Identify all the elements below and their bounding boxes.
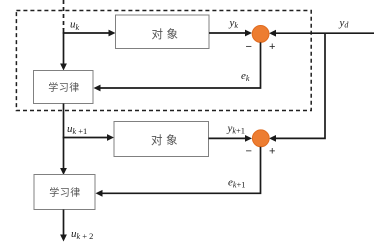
plant box 对象 (iteration k+1) [114, 122, 209, 157]
learning law box 学习律 (iteration k) [34, 71, 94, 104]
wire: e_k+1 from summing node 2 to learning law 2 [98, 147, 261, 194]
svg-text:对象: 对象 [151, 133, 181, 147]
svg-text:对象: 对象 [152, 27, 182, 41]
learning law box 学习律 (iteration k+1) [34, 175, 95, 210]
svg-text:+: + [269, 145, 275, 157]
wire: y_k from plant 1 to summing node [209, 32, 250, 34]
svg-text:−: − [245, 41, 251, 53]
summing node 2 (orange) [252, 130, 269, 147]
dashed iteration-k boundary box [16, 11, 311, 111]
wire: y_k+1 from plant 2 to summing node 2 [209, 137, 251, 139]
summing node 1 (orange) [252, 26, 269, 43]
wire: u_k+1 horizontal into plant 2 [63, 137, 112, 139]
wire: dashed u_k entry from top [63, 0, 65, 29]
wire: u_k+1 from learning law 1 down to learning law 2 [63, 104, 65, 174]
svg-text:学习律: 学习律 [49, 186, 81, 199]
wire: e_k from summing node 1 to learning law 1 [96, 42, 261, 88]
svg-text:−: − [245, 145, 251, 157]
svg-text:+: + [269, 41, 275, 53]
wire: u_k+2 output arrow [63, 210, 65, 240]
wire: y_d from right edge into summing node 1 [271, 32, 374, 34]
wire: u_k horizontal into plant 1 [63, 32, 114, 34]
wire: y_d branch down to summing node 2 [271, 33, 325, 138]
svg-text:学习律: 学习律 [48, 81, 80, 94]
wire: u_k vertical into learning law 1 [63, 28, 65, 69]
plant box 对象 (iteration k) [116, 15, 210, 49]
